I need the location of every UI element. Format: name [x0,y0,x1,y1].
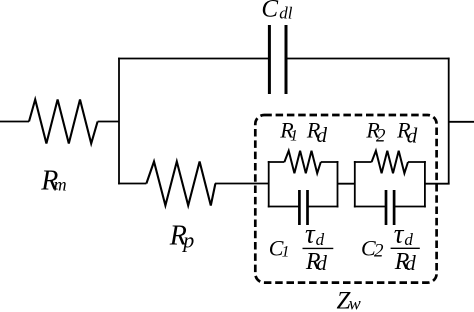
svg-text:2: 2 [374,241,384,262]
svg-text:dl: dl [279,4,293,23]
svg-text:m: m [54,175,67,195]
label C_1 tau_d / R_d fraction [269,218,334,275]
svg-text:d: d [405,251,416,275]
wire top branch left [118,58,268,60]
svg-text:1: 1 [282,244,290,261]
RC cell 1 frame [268,161,339,208]
resistor R_p [146,162,215,206]
capacitor C1 (cell 1 bottom) [299,190,307,225]
svg-text:p: p [181,228,194,253]
label C_2 tau_d / R_d fraction [361,218,420,275]
resistor R2 (cell 2 top) [372,151,408,173]
node branch vertical wire [118,58,120,185]
capacitor C2 (cell 2 bottom) [386,190,394,225]
svg-text:d: d [316,251,327,275]
wire cell2 to right vertical [425,183,450,185]
svg-text:d: d [316,230,325,249]
wire cell1 to cell2 [338,183,355,185]
label R_1 R_d [279,117,327,147]
label Z_w [337,288,361,312]
label C_dl [261,0,292,23]
wire input left [0,121,29,123]
resistor R_m [29,100,98,144]
svg-text:C: C [261,0,278,23]
capacitor C_dl [269,25,286,94]
label R_p [169,220,195,252]
svg-text:τ: τ [305,218,316,248]
wire output right [449,121,474,123]
svg-text:1: 1 [290,128,298,145]
wire R_p to Z_w box [215,183,269,185]
wire R_m to node [98,121,119,123]
label R_2 R_d [365,117,417,147]
resistor R1 (cell 1 top) [284,151,320,173]
label R_m [40,165,66,196]
svg-text:2: 2 [376,125,386,146]
svg-text:d: d [317,123,328,147]
RC cell 2 frame [354,161,426,208]
right vertical wire [448,58,450,185]
svg-text:d: d [407,123,418,147]
svg-text:τ: τ [394,218,405,248]
svg-text:d: d [404,230,413,249]
wire bottom branch left [118,183,146,185]
svg-text:w: w [349,294,361,312]
wire top branch right [286,58,450,60]
dashed box Z_w [255,115,436,283]
